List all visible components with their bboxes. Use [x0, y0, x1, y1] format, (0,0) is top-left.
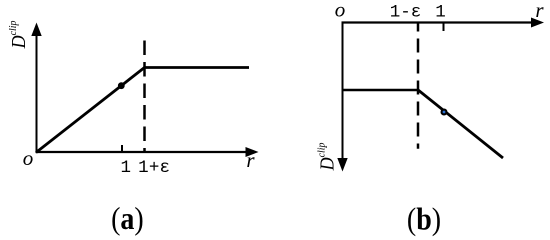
declining line (b): [418, 90, 504, 159]
flat line (a): [144, 66, 250, 69]
svg-text:o: o: [335, 0, 346, 22]
rising line (a): [36, 68, 145, 153]
dashed line at 1-eps (b): [417, 24, 420, 149]
svg-text:1: 1: [121, 158, 132, 178]
svg-text:r: r: [535, 0, 544, 22]
svg-text:(b): (b): [407, 203, 441, 237]
marker dot (a): [118, 82, 125, 89]
svg-text:1: 1: [435, 3, 446, 23]
dashed line at 1+eps (a): [143, 41, 146, 153]
vertical axis (b): [342, 22, 344, 161]
horizontal graph line (b): [343, 89, 419, 91]
svg-text:o: o: [23, 146, 34, 170]
horizontal axis (b): [342, 21, 534, 23]
marker dot (b): [441, 109, 448, 116]
svg-text:r: r: [246, 148, 255, 172]
svg-text:1+ε: 1+ε: [138, 158, 170, 178]
tick at 1 (b): [443, 23, 445, 32]
x-axis (a): [36, 151, 249, 153]
svg-text:1-ε: 1-ε: [390, 3, 422, 23]
tick at 1 (a): [121, 145, 123, 152]
svg-text:(a): (a): [111, 203, 144, 237]
y-axis (a): [36, 34, 38, 152]
